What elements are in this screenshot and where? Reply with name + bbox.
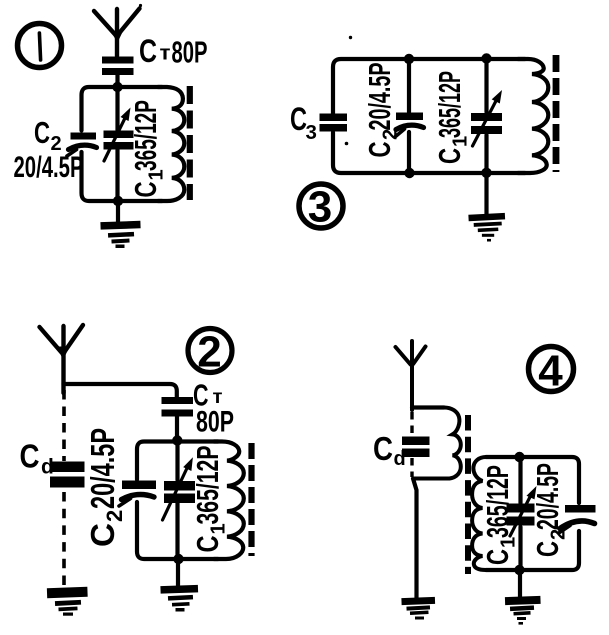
capacitor CT 80P (fixed, circuit 2) [162,397,194,404]
node top C2 branch [404,54,414,64]
inductor L coil (circuit 2) [214,442,244,560]
variable capacitor C1 365/12P (circuit 2) [163,457,196,520]
antenna W1 [94,9,140,57]
label C3 [290,101,317,144]
node bottom C1 branch [481,168,491,178]
label CT 80P [139,33,208,70]
core dashed line (circuit 2) [248,443,254,556]
svg-text:20/4.5P: 20/4.5P [14,151,84,184]
dashed wire Cd section lower (circuit 4) [410,458,413,477]
node top C1 branch [481,53,491,63]
capacitor CT 80P (fixed, circuit 1) [102,57,134,64]
svg-text:20/4.5P: 20/4.5P [362,63,397,131]
antenna W2 [40,325,84,393]
svg-text:C: C [432,148,467,164]
trimmer capacitor C2 20/4.5P (circuit 4) [560,505,596,533]
label C2 [34,115,62,155]
svg-text:C: C [20,438,40,475]
wire antenna line to ground (circuit 4) [413,479,417,599]
trimmer capacitor C2 20/4.5P (circuit 3) [396,113,424,137]
ground (secondary, circuit 4) [505,596,541,625]
svg-text:C: C [128,182,163,198]
wire C2 branch [407,59,411,173]
label C1 365/12P (rotated, circuit 4) [480,465,520,565]
label Cd (circuit 4) [373,430,406,470]
tank rectangle wire (circuit 2) [137,442,218,560]
tank rectangle wire (left, top, bottom rails) [82,87,163,201]
circled number 3 [299,184,343,228]
wire antenna to CT branch [64,384,177,398]
svg-text:365/12P: 365/12P [432,71,467,138]
speck near antenna 1 [139,4,142,7]
secondary tank rectangle wire (top, right with gap for C2, bottom) [486,457,579,570]
wire CT to tank top junction [175,417,179,442]
core dashed line (circuit 4) [465,415,471,574]
label C2 20/4.5P (rotated, circuit 3) [362,63,402,158]
svg-text:C: C [139,33,157,69]
svg-text:80P: 80P [196,406,234,439]
svg-text:3: 3 [308,183,332,232]
wire center branch through C1 (circuit 2) [175,441,179,559]
dashed wire Cd branch upper [62,390,66,461]
svg-text:2: 2 [102,510,127,522]
variable capacitor C1 365/12P (circuit 4) [507,486,537,536]
variable capacitor C1 365/12P (circuit 3) [471,90,502,146]
node junction bottom (circuit 1) [113,196,123,206]
node bottom C2 branch [404,168,414,178]
label C1 365/12P (rotated, circuit 3) [432,71,472,164]
svg-text:365/12P: 365/12P [480,465,515,538]
label C2 20/4.5P (rotated, circuit 2) [84,428,127,547]
svg-text:C: C [34,115,50,150]
svg-text:d: d [41,456,54,479]
svg-text:d: d [394,448,406,470]
svg-text:4: 4 [538,347,563,396]
inductor L coil (circuit 3) [518,59,548,173]
wire center branch through C1 [115,87,119,201]
svg-text:C: C [190,536,225,553]
antenna W4 [396,341,426,410]
svg-text:C: C [480,549,515,565]
dashed wire Cd branch lower [62,492,66,585]
circled number 2 [188,329,232,373]
circled number 4 [529,347,574,392]
svg-text:2: 2 [197,328,221,377]
wire to ground (circuit 1) [116,201,120,223]
svg-text:365/12P: 365/12P [190,446,225,525]
circled number 1 [18,24,62,68]
wire to ground (circuit 2 tank) [176,559,180,587]
speck below C2 label (circuit 3) [345,142,349,146]
label C1 365/12P (rotated, circuit 1) [128,100,168,198]
svg-text:C: C [373,430,393,467]
svg-text:365/12P: 365/12P [128,100,163,171]
ground (Cd branch, circuit 2) [47,587,88,616]
inductor L1 coil (circuit 1) [158,87,184,201]
trimmer capacitor C2 20/4.5P (circuit 1) [67,133,97,157]
svg-text:C: C [530,541,565,557]
svg-text:C: C [362,142,397,158]
capacitor Cd (circuit 2) [50,462,85,473]
node junction top (circuit 4) [514,452,524,462]
capacitor C3 (fixed, circuit 3) [320,114,348,122]
core dashed line (circuit 1) [187,86,193,200]
inductor primary coil (circuit 4) [415,408,461,479]
svg-text:20/4.5P: 20/4.5P [530,463,565,530]
wire CT to tank top junction [115,75,119,88]
wire antenna junction to primary coil [412,405,444,409]
ground (circuit 2 tank) [160,585,198,612]
trimmer capacitor C2 20/4.5P (circuit 2) [119,481,156,507]
svg-text:3: 3 [306,121,317,144]
label Cd (circuit 2) [20,438,54,479]
ground (antenna line, circuit 4) [401,597,435,620]
dashed wire Cd section upper (circuit 4) [410,412,413,436]
speck above circuit 3 [349,36,352,39]
core dashed line (circuit 3) [553,55,560,172]
svg-text:20/4.5P: 20/4.5P [84,428,121,509]
wire to ground (circuit 3) [484,173,488,216]
label C1 365/12P (rotated, circuit 2) [190,446,230,553]
tank rectangle wire (left side with gap for C3, top and bottom rails) [333,59,525,173]
svg-text:C: C [84,523,121,547]
node junction top (circuit 1) [112,82,122,92]
label C2 20/4.5P (rotated, circuit 4) [530,463,570,557]
wire to ground (secondary, circuit 4) [518,570,522,597]
svg-text:80P: 80P [172,35,208,70]
node junction top (circuit 2) [172,435,182,445]
inductor secondary coil (circuit 4, bumps left) [472,457,492,570]
svg-text:т: т [160,43,171,65]
svg-text:C: C [290,101,307,137]
node junction bottom (circuit 2) [173,554,183,564]
ground (circuit 1) [100,221,140,248]
capacitor Cd (circuit 4) [402,437,430,446]
wire C1 branch [484,59,488,173]
label CT (circuit 2) [193,378,223,413]
ground (circuit 3) [468,213,505,242]
node junction bottom (circuit 4) [514,565,524,575]
wire C1 branch (circuit 4) [518,457,522,570]
variable capacitor C1 365/12P (circuit 1) [104,108,134,162]
